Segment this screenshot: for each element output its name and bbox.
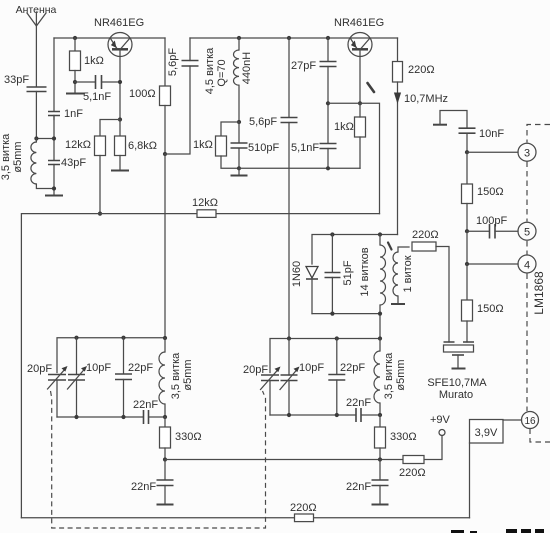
label C16 22nF bbox=[133, 399, 158, 411]
wire node A to 1nF line bbox=[36, 138, 54, 140]
label 33pF bbox=[4, 74, 29, 86]
capacitor C5 5,6pF bbox=[182, 61, 199, 67]
label C14 10pF bbox=[86, 362, 111, 374]
node A junction bbox=[34, 136, 38, 140]
svg-text:3: 3 bbox=[524, 148, 530, 160]
svg-text:12kΩ: 12kΩ bbox=[192, 197, 218, 209]
label L5 3,5 витка ø5mm bbox=[170, 352, 194, 399]
resistor R13 330Ω bbox=[375, 415, 386, 460]
label R2 12kΩ bbox=[65, 139, 91, 151]
svg-text:5,1nF: 5,1nF bbox=[83, 91, 111, 103]
node tank2 bottom junctions bbox=[287, 413, 382, 417]
svg-text:1kΩ: 1kΩ bbox=[84, 55, 104, 67]
signal arrow 10,7MHz bbox=[394, 93, 401, 105]
node C6 bottom junction bbox=[237, 166, 241, 170]
svg-text:440nH: 440nH bbox=[241, 52, 253, 84]
svg-text:SFE10,7MA: SFE10,7MA bbox=[427, 377, 487, 389]
svg-text:33pF: 33pF bbox=[4, 74, 29, 86]
svg-text:NR461EG: NR461EG bbox=[334, 17, 384, 29]
wire top bus left bbox=[54, 37, 165, 39]
label C4 5,1nF bbox=[83, 91, 111, 103]
label R7 220Ω bbox=[408, 64, 435, 76]
label R3 6,8kΩ bbox=[128, 140, 157, 152]
wire to pin 4 bbox=[467, 231, 518, 264]
resistor R10 150Ω bbox=[462, 152, 473, 231]
svg-text:1 виток: 1 виток bbox=[402, 255, 414, 292]
node B junction bbox=[52, 136, 56, 140]
label R9 220Ω bbox=[412, 229, 439, 241]
svg-text:51pF: 51pF bbox=[342, 260, 354, 285]
dashed IC pin line bbox=[527, 125, 550, 412]
svg-text:ø5mm: ø5mm bbox=[395, 359, 407, 390]
wire box to pin 16 bbox=[503, 419, 522, 421]
coupling tick mark 1 bbox=[368, 83, 375, 92]
resistor R14 220Ω bbox=[403, 456, 424, 464]
svg-text:10pF: 10pF bbox=[86, 362, 111, 374]
node pin4 junction bbox=[465, 262, 469, 266]
svg-text:4,5 витка: 4,5 витка bbox=[204, 47, 216, 94]
svg-text:150Ω: 150Ω bbox=[477, 186, 504, 198]
svg-text:6,8kΩ: 6,8kΩ bbox=[128, 140, 157, 152]
wire Q2 base down bbox=[359, 50, 361, 104]
svg-text:22nF: 22nF bbox=[133, 399, 158, 411]
label C15 22pF bbox=[128, 362, 153, 374]
dashed below pin 16 bbox=[530, 429, 550, 443]
diode D1 1N60 bbox=[306, 267, 318, 314]
ground 3 bbox=[111, 170, 129, 172]
svg-text:LM1868: LM1868 bbox=[532, 271, 546, 315]
node Q2 base junction bbox=[358, 101, 362, 105]
svg-text:3,5 витка: 3,5 витка bbox=[383, 352, 395, 399]
ground 5 bbox=[391, 303, 405, 305]
label R14 220Ω bbox=[399, 467, 426, 479]
label C11 10nF bbox=[479, 128, 504, 140]
label C10 51pF bbox=[342, 260, 354, 285]
svg-text:NR461EG: NR461EG bbox=[94, 17, 144, 29]
wire detector tank top bbox=[312, 235, 398, 265]
label R1 1kΩ bbox=[84, 55, 104, 67]
node Q1 base / C4 junction bbox=[118, 80, 122, 84]
label L4 1 виток bbox=[402, 255, 414, 292]
label 1nF bbox=[64, 108, 83, 120]
inductor L4 1 виток bbox=[393, 247, 409, 304]
antenna W1 bbox=[27, 12, 46, 86]
svg-text:20pF: 20pF bbox=[27, 363, 52, 375]
resistor R9 220Ω bbox=[412, 242, 449, 342]
svg-text:Q=70: Q=70 bbox=[216, 59, 228, 86]
wire 1nF branch from bus bbox=[53, 38, 55, 195]
svg-text:43pF: 43pF bbox=[61, 157, 86, 169]
inductor L5 3,5 витка bbox=[159, 338, 165, 417]
svg-text:+9V: +9V bbox=[430, 414, 451, 426]
svg-text:100pF: 100pF bbox=[476, 215, 507, 227]
label L2 4,5 витка Q=70 bbox=[204, 47, 228, 94]
capacitor C9 5,1nF bbox=[320, 103, 337, 168]
label LM1868 bbox=[532, 271, 546, 315]
svg-text:150Ω: 150Ω bbox=[477, 303, 504, 315]
wire emitter return line bbox=[239, 167, 360, 169]
svg-text:5: 5 bbox=[524, 227, 530, 239]
node tank top 51pF junction bbox=[330, 232, 334, 236]
label C12 100pF bbox=[476, 215, 507, 227]
capacitor C2 1nF bbox=[48, 112, 60, 120]
capacitor C21 22nF bbox=[356, 408, 361, 422]
capacitor C4 5,1nF bbox=[75, 75, 120, 89]
svg-text:220Ω: 220Ω bbox=[290, 502, 317, 514]
svg-text:14 витков: 14 витков bbox=[359, 247, 371, 296]
ground 8 bbox=[372, 504, 389, 506]
label C8 27pF bbox=[291, 60, 316, 72]
capacitor C20 22pF bbox=[328, 339, 345, 416]
svg-text:220Ω: 220Ω bbox=[399, 467, 426, 479]
node tank1 bottom junctions bbox=[74, 415, 167, 419]
svg-text:1nF: 1nF bbox=[64, 108, 83, 120]
wire tank1 top bbox=[57, 338, 165, 373]
svg-text:22nF: 22nF bbox=[346, 397, 371, 409]
inductor L6 3,5 витка bbox=[374, 339, 380, 416]
capacitor C22 22nF bbox=[372, 460, 389, 505]
variable capacitor C18 20pF bbox=[261, 367, 281, 416]
wire coupling link bbox=[165, 38, 190, 154]
capacitor C1 33pF bbox=[27, 87, 47, 139]
label C9 5,1nF bbox=[291, 142, 319, 154]
resistor R7 220Ω bbox=[393, 38, 403, 235]
wire top bus right bbox=[190, 37, 398, 39]
svg-text:22pF: 22pF bbox=[340, 362, 365, 374]
wire tank2 bottom bbox=[270, 414, 380, 416]
ground 2 bbox=[66, 93, 84, 95]
label R4 100Ω bbox=[129, 88, 156, 100]
svg-text:510pF: 510pF bbox=[248, 142, 279, 154]
label R12 330Ω bbox=[175, 431, 202, 443]
pin 3 bbox=[518, 143, 536, 161]
node C9 top junction bbox=[326, 101, 330, 105]
svg-text:5,1nF: 5,1nF bbox=[291, 142, 319, 154]
wire supply row bbox=[165, 459, 403, 461]
label L2 440nH bbox=[241, 52, 253, 84]
resistor R4 100Ω bbox=[160, 38, 171, 154]
node bus 1kΩ junction bbox=[73, 36, 77, 40]
capacitor C8 27pF bbox=[320, 38, 337, 103]
label L3 14 витков bbox=[359, 247, 371, 296]
node collector load junction bbox=[163, 152, 167, 156]
node tank2 top junctions bbox=[287, 336, 382, 340]
node R13 bottom junction bbox=[378, 457, 382, 461]
pin 16 bbox=[522, 412, 539, 429]
node 10nF junction bbox=[465, 150, 469, 154]
svg-text:ø5mm: ø5mm bbox=[182, 359, 194, 390]
resistor R2 12kΩ bbox=[95, 136, 106, 214]
svg-text:1kΩ: 1kΩ bbox=[193, 139, 213, 151]
label L6 3,5 витка ø5mm bbox=[383, 352, 407, 399]
label R15 220Ω bbox=[290, 502, 317, 514]
variable capacitor C14 10pF bbox=[68, 338, 88, 417]
resistor R15 220Ω bbox=[295, 514, 314, 522]
wire box down bbox=[469, 443, 471, 518]
label 43pF bbox=[61, 157, 86, 169]
wire bottom supply line bbox=[21, 517, 469, 519]
label D1 1N60 bbox=[291, 261, 303, 287]
label C22 22nF bbox=[346, 481, 371, 493]
filter X1 SFE10,7MA bbox=[444, 342, 475, 369]
caption fragment bbox=[451, 529, 544, 533]
label C19 10pF bbox=[299, 362, 324, 374]
node R2 bottom junction bbox=[98, 212, 102, 216]
wire tank1 bottom bbox=[57, 416, 165, 418]
node tank top coil junction bbox=[378, 232, 382, 236]
wire detector tank bottom bbox=[312, 314, 380, 339]
svg-text:100Ω: 100Ω bbox=[129, 88, 156, 100]
resistor R5 1kΩ bbox=[216, 122, 240, 168]
resistor R11 150Ω bbox=[462, 264, 473, 342]
node bus 5,6pF junction bbox=[287, 36, 291, 40]
label C5 5,6pF bbox=[167, 48, 179, 76]
svg-text:22nF: 22nF bbox=[131, 481, 156, 493]
transistor Q1 NR461EG bbox=[108, 33, 132, 57]
svg-text:3,9V: 3,9V bbox=[475, 427, 498, 439]
label C7 5,6pF bbox=[249, 116, 277, 128]
capacitor C16 22nF bbox=[144, 410, 149, 424]
svg-text:22nF: 22nF bbox=[346, 481, 371, 493]
svg-text:3,5 витка: 3,5 витка bbox=[0, 133, 12, 180]
node bus L2 junction bbox=[237, 36, 241, 40]
antenna label bbox=[16, 4, 57, 16]
variable capacitor C13 20pF bbox=[48, 366, 68, 417]
svg-text:22pF: 22pF bbox=[128, 362, 153, 374]
label R6 1kΩ bbox=[334, 121, 354, 133]
svg-text:5,6pF: 5,6pF bbox=[167, 48, 179, 76]
resistor R8 12kΩ horizontal bbox=[197, 210, 216, 218]
svg-text:10,7MHz: 10,7MHz bbox=[404, 93, 448, 105]
svg-text:330Ω: 330Ω bbox=[390, 431, 417, 443]
capacitor C17 22nF bbox=[157, 460, 174, 505]
label NR461EG no.2 bbox=[334, 17, 384, 29]
svg-text:4: 4 bbox=[524, 260, 530, 272]
wire first IF vertical down bbox=[164, 154, 166, 338]
box 3,9V bbox=[470, 420, 504, 444]
label R11 150Ω bbox=[477, 303, 504, 315]
label R5 1kΩ bbox=[193, 139, 213, 151]
label R10 150Ω bbox=[477, 186, 504, 198]
capacitor C15 22pF bbox=[115, 338, 132, 417]
wire 12kΩ row bbox=[21, 214, 379, 518]
pin 4 bbox=[518, 255, 536, 273]
svg-text:1N60: 1N60 bbox=[291, 261, 303, 287]
wire to pin 3 bbox=[467, 151, 518, 153]
resistor R3 6,8kΩ bbox=[115, 120, 126, 171]
svg-text:16: 16 bbox=[524, 416, 536, 427]
node 100pF junction bbox=[465, 229, 469, 233]
label L1 3,5 витка bbox=[0, 133, 24, 180]
node R12 bottom junction bbox=[163, 457, 167, 461]
svg-text:330Ω: 330Ω bbox=[175, 431, 202, 443]
svg-text:5,6pF: 5,6pF bbox=[249, 116, 277, 128]
svg-text:10nF: 10nF bbox=[479, 128, 504, 140]
wire base row bbox=[328, 103, 380, 213]
label C13 20pF bbox=[27, 363, 52, 375]
ground 7 bbox=[157, 504, 174, 506]
pin 5 bbox=[518, 222, 536, 240]
svg-text:ø5mm: ø5mm bbox=[12, 141, 24, 172]
node tank bottom coil junction bbox=[378, 312, 382, 316]
label C20 22pF bbox=[340, 362, 365, 374]
resistor R1 1kΩ bbox=[70, 38, 81, 93]
node base divider junction bbox=[118, 117, 122, 121]
capacitor C3 43pF bbox=[48, 161, 60, 165]
terminal +9V bbox=[424, 430, 445, 460]
inductor L2 440nH bbox=[233, 38, 239, 122]
wire Q1 base down bbox=[119, 50, 121, 120]
coupling tick mark 2 bbox=[388, 243, 392, 250]
svg-text:Murato: Murato bbox=[439, 389, 473, 401]
inductor L3 14 витков bbox=[380, 235, 386, 314]
label R13 330Ω bbox=[390, 431, 417, 443]
node tank bottom 51pF junction bbox=[330, 312, 334, 316]
label NR461EG no.1 bbox=[94, 17, 144, 29]
capacitor C12 100pF bbox=[467, 224, 518, 239]
node C junction bbox=[52, 186, 56, 190]
label +9V bbox=[430, 414, 451, 426]
capacitor C10 51pF bbox=[325, 235, 341, 314]
node R1 bottom junction bbox=[73, 80, 77, 84]
node L2 bottom junction bbox=[237, 120, 241, 124]
label R8 12kΩ bbox=[192, 197, 218, 209]
node C9 bottom junction bbox=[326, 166, 330, 170]
label SFE10,7MA Murato bbox=[427, 377, 487, 401]
capacitor C7 5,6pF bbox=[281, 38, 298, 339]
label C21 22nF bbox=[346, 397, 371, 409]
ground 6 bbox=[433, 111, 467, 128]
svg-text:20pF: 20pF bbox=[243, 364, 268, 376]
label C17 22nF bbox=[131, 481, 156, 493]
transistor Q2 NR461EG bbox=[348, 33, 372, 57]
inductor L1 3,5 витка bbox=[31, 139, 54, 189]
ground 4 bbox=[231, 168, 248, 175]
svg-text:10pF: 10pF bbox=[299, 362, 324, 374]
resistor R12 330Ω bbox=[160, 417, 171, 460]
resistor R6 1kΩ bbox=[355, 103, 366, 168]
svg-text:1kΩ: 1kΩ bbox=[334, 121, 354, 133]
dashed tuning gang link bbox=[51, 391, 266, 528]
svg-text:220Ω: 220Ω bbox=[412, 229, 439, 241]
wire divider top bbox=[100, 120, 120, 137]
wire tank2 top bbox=[270, 339, 380, 373]
node bus 27pF junction bbox=[326, 36, 330, 40]
svg-text:12kΩ: 12kΩ bbox=[65, 139, 91, 151]
label C6 510pF bbox=[248, 142, 279, 154]
ground 1 bbox=[45, 195, 63, 197]
variable capacitor C19 10pF bbox=[280, 339, 300, 416]
capacitor C11 10nF bbox=[459, 128, 476, 152]
label 10,7MHz bbox=[404, 93, 448, 105]
svg-text:220Ω: 220Ω bbox=[408, 64, 435, 76]
node tank1 top junctions bbox=[74, 336, 167, 341]
capacitor C6 510pF bbox=[231, 122, 248, 168]
svg-text:27pF: 27pF bbox=[291, 60, 316, 72]
label C18 20pF bbox=[243, 364, 268, 376]
svg-text:3,5 витка: 3,5 витка bbox=[170, 352, 182, 399]
